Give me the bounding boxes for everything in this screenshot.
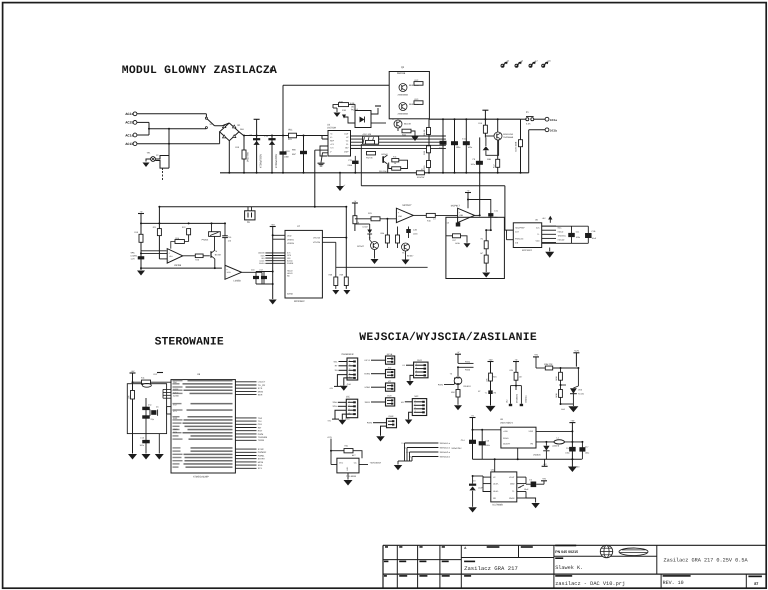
svg-text:U3B: U3B: [459, 214, 464, 217]
svg-text:100n: 100n: [485, 444, 489, 447]
svg-text:SHDN: SHDN: [259, 262, 265, 265]
svg-text:100uF/25V: 100uF/25V: [451, 447, 462, 450]
svg-text:-12: -12: [535, 60, 538, 63]
svg-text:SDA: SDA: [258, 464, 263, 467]
svg-text:zasilacz - DAC V10.prj: zasilacz - DAC V10.prj: [555, 581, 625, 587]
svg-text:FANa: FANa: [465, 360, 471, 363]
svg-text:START: START: [258, 458, 266, 461]
svg-text:2N3055B8: 2N3055B8: [398, 112, 409, 115]
svg-text:1K0B: 1K0B: [455, 242, 460, 245]
svg-text:BD911/3A: BD911/3A: [503, 133, 513, 136]
svg-text:4700uF/25V: 4700uF/25V: [260, 154, 263, 168]
svg-text:LM285: LM285: [131, 255, 138, 258]
svg-text:RSD: RSD: [173, 417, 178, 420]
svg-text:RST: RST: [258, 430, 263, 433]
svg-text:BD139: BD139: [404, 123, 411, 126]
svg-text:AC1a: AC1a: [125, 133, 133, 138]
svg-text:BC547: BC547: [357, 245, 364, 248]
svg-text:P02-3h: P02-3h: [366, 157, 372, 160]
svg-text:C17: C17: [585, 446, 588, 449]
svg-text:VOUT: VOUT: [509, 476, 515, 479]
svg-text:SPA: SPA: [131, 252, 136, 255]
svg-text:TIL_PR: TIL_PR: [258, 384, 266, 387]
svg-text:LM358: LM358: [234, 280, 242, 283]
svg-text:MCP4822: MCP4822: [294, 300, 305, 303]
svg-text:MCP4B22: MCP4B22: [522, 249, 533, 252]
svg-text:REV. 10: REV. 10: [663, 580, 684, 586]
svg-text:L4002-B: L4002-B: [552, 444, 560, 447]
svg-text:+5V: +5V: [570, 419, 574, 422]
svg-text:VREFB: VREFB: [287, 242, 295, 245]
svg-text:1K0B: 1K0B: [555, 393, 558, 398]
svg-text:2: 2: [416, 366, 417, 369]
svg-text:SYS: SYS: [258, 387, 263, 390]
svg-text:ATMEGA32BP: ATMEGA32BP: [193, 475, 209, 478]
svg-text:HOLD: HOLD: [287, 272, 293, 275]
svg-text:TRIG/SCL: TRIG/SCL: [558, 235, 567, 238]
svg-text:R28: R28: [329, 274, 332, 277]
svg-text:VCC: VCC: [339, 461, 344, 464]
svg-text:Zasilacz GRA 217 0.25V 0.5A: Zasilacz GRA 217 0.25V 0.5A: [664, 558, 749, 564]
svg-text:+12V: +12V: [574, 350, 580, 353]
svg-text:CLK: CLK: [258, 423, 263, 426]
svg-text:Slawek K.: Slawek K.: [555, 565, 583, 571]
svg-text:SERIAL1.a: SERIAL1.a: [440, 442, 451, 445]
svg-text:0R1/2W: 0R1/2W: [417, 176, 424, 179]
svg-text:CHG: CHG: [417, 359, 422, 362]
svg-text:R7: R7: [421, 168, 423, 171]
svg-text:PWM1: PWM1: [258, 454, 265, 457]
svg-text:4: 4: [416, 373, 417, 376]
svg-text:C16: C16: [251, 269, 254, 272]
svg-text:PWR: PWR: [389, 415, 394, 418]
svg-text:R9B: R9B: [487, 158, 492, 161]
svg-text:100u: 100u: [471, 163, 475, 166]
svg-text:SERIAL2.b: SERIAL2.b: [440, 455, 451, 458]
svg-text:SER: SER: [258, 394, 263, 397]
svg-text:SMO: SMO: [173, 428, 178, 431]
svg-text:1e: 1e: [519, 486, 521, 489]
svg-text:AC2a: AC2a: [125, 112, 133, 117]
svg-text:ON/OFF: ON/OFF: [503, 442, 511, 445]
svg-text:R2: R2: [494, 392, 496, 395]
svg-text:STEROWANIE: STEROWANIE: [155, 336, 224, 348]
svg-text:/HOLD: /HOLD: [558, 230, 564, 233]
svg-text:TL: TL: [537, 233, 539, 236]
svg-text:T1: T1: [485, 392, 487, 395]
svg-text:R18 1K: R18 1K: [423, 129, 426, 137]
svg-text:SERIAL2.a: SERIAL2.a: [440, 451, 451, 454]
svg-text:/HOLD2: /HOLD2: [558, 239, 565, 242]
svg-text:LM358: LM358: [174, 264, 182, 267]
svg-text:C2B: C2B: [413, 229, 418, 232]
svg-text:3: 3: [415, 406, 416, 409]
svg-text:SERIAL1.b: SERIAL1.b: [440, 446, 451, 449]
svg-text:TL431: TL431: [578, 393, 585, 396]
svg-text:GND: GND: [561, 408, 566, 411]
svg-text:VOUTB: VOUTB: [313, 241, 321, 244]
svg-text:VSW: VSW: [528, 430, 533, 433]
svg-text:V-: V-: [330, 150, 332, 153]
svg-text:PWM: PWM: [367, 422, 372, 425]
svg-text:R24: R24: [493, 376, 496, 379]
svg-text:PWM: PWM: [258, 433, 264, 436]
svg-text:10UFL: 10UFL: [493, 490, 499, 493]
svg-text:2N3055B8: 2N3055B8: [398, 93, 409, 96]
svg-text:1K5B: 1K5B: [555, 376, 558, 381]
svg-text:GND: GND: [347, 383, 352, 386]
svg-text:10uF: 10uF: [592, 237, 597, 240]
svg-text:LDAC: LDAC: [259, 260, 265, 263]
svg-text:AREF: AREF: [173, 388, 179, 391]
svg-text:10uF: 10uF: [478, 486, 483, 489]
svg-text:+24: +24: [548, 60, 551, 63]
svg-text:+CS: +CS: [330, 143, 335, 146]
svg-text:CLR: CLR: [515, 231, 519, 234]
svg-text:C1B: C1B: [592, 230, 597, 233]
svg-text:GND/DQ: GND/DQ: [525, 395, 528, 403]
svg-text:+12V: +12V: [327, 436, 333, 439]
svg-text:KEYB: KEYB: [387, 353, 393, 356]
svg-text:HOLD: HOLD: [287, 270, 293, 273]
svg-text:10uF: 10uF: [524, 488, 529, 491]
svg-text:TERM: TERM: [258, 439, 264, 442]
svg-text:+5: +5: [507, 60, 509, 63]
svg-text:100u: 100u: [565, 452, 569, 455]
svg-text:C16: C16: [566, 447, 569, 450]
svg-text:MGN: MGN: [258, 390, 264, 393]
svg-text:ICL7660B: ICL7660B: [493, 503, 504, 506]
svg-text:A/D: A/D: [388, 366, 392, 369]
svg-text:LM723H: LM723H: [327, 127, 336, 130]
svg-text:DS18B20: DS18B20: [516, 393, 519, 403]
svg-text:US1: US1: [346, 467, 349, 471]
svg-text:GND: GND: [576, 466, 581, 469]
svg-text:BC337: BC337: [215, 254, 222, 257]
svg-text:+5V/100mA: +5V/100mA: [370, 461, 382, 464]
svg-text:MCP617: MCP617: [451, 204, 461, 207]
svg-text:TDI: TDI: [258, 420, 262, 423]
svg-text:AVCC: AVCC: [173, 391, 179, 394]
svg-text:100u: 100u: [585, 451, 589, 454]
svg-text:PR20A: PR20A: [202, 239, 209, 242]
svg-text:AC2b: AC2b: [125, 121, 133, 126]
svg-text:DO5-105B: DO5-105B: [514, 141, 517, 151]
svg-text:MIC: MIC: [415, 395, 419, 398]
svg-text:1: 1: [416, 363, 417, 366]
svg-text:SCA: SCA: [333, 405, 338, 408]
svg-text:/SHDN: /SHDN: [287, 262, 294, 265]
svg-text:6.3A: 6.3A: [526, 123, 531, 126]
svg-text:SCK: SCK: [287, 254, 292, 257]
svg-text:Q1: Q1: [156, 406, 159, 409]
svg-text:3: 3: [416, 369, 417, 372]
svg-text:BC547: BC547: [382, 153, 389, 156]
svg-text:CHARGER: CHARGER: [342, 353, 354, 356]
svg-text:TERM: TERM: [364, 373, 370, 376]
svg-text:SDA: SDA: [333, 401, 338, 404]
svg-text:2: 2: [349, 404, 350, 407]
svg-text:2N3055B8: 2N3055B8: [503, 136, 514, 139]
svg-text:2: 2: [415, 403, 416, 406]
svg-text:HOU/PREF: HOU/PREF: [515, 227, 526, 230]
svg-text:SDI: SDI: [287, 257, 291, 260]
svg-text:4700uF/25V: 4700uF/25V: [275, 154, 278, 168]
svg-text:GND2: GND2: [509, 497, 515, 500]
svg-text:PWM: PWM: [438, 384, 443, 387]
svg-text:MODUL GLOWNY ZASILACZA: MODUL GLOWNY ZASILACZA: [122, 65, 277, 77]
svg-text:SYNC: SYNC: [258, 448, 264, 451]
svg-text:IRL510: IRL510: [464, 385, 472, 388]
svg-text:MCM: MCM: [258, 461, 263, 464]
svg-text:KEY1: KEY1: [365, 359, 371, 362]
svg-text:R5C: R5C: [292, 153, 297, 156]
svg-text:I/O: I/O: [388, 380, 391, 383]
svg-text:4: 4: [349, 372, 350, 375]
svg-text:+5V: +5V: [534, 354, 538, 357]
svg-text:SDI: SDI: [261, 257, 265, 260]
svg-text:VOUTA: VOUTA: [313, 237, 321, 240]
svg-text:R25: R25: [510, 369, 513, 372]
svg-text:R26: R26: [451, 391, 454, 394]
svg-text:PN 045 00215: PN 045 00215: [555, 550, 578, 554]
svg-text:AD2-105: AD2-105: [363, 133, 372, 136]
svg-text:4K7: 4K7: [519, 376, 522, 379]
svg-text:DMOSI: DMOSI: [258, 252, 265, 255]
svg-text:-: -: [459, 219, 460, 222]
svg-text:VDD: VDD: [536, 240, 541, 243]
svg-text:0R27/5W: 0R27/5W: [247, 151, 250, 162]
svg-text:R8C: R8C: [292, 149, 297, 152]
svg-text:1: 1: [349, 400, 350, 403]
svg-text:SN: SN: [335, 369, 338, 372]
svg-text:CMP: CMP: [344, 150, 349, 153]
svg-text:T4: T4: [404, 446, 406, 449]
svg-text:Zasilacz GRA 217: Zasilacz GRA 217: [464, 565, 518, 572]
svg-text:GND: GND: [345, 417, 350, 420]
svg-text:1.0: 1.0: [433, 218, 436, 221]
svg-text:LCD1/7: LCD1/7: [258, 381, 266, 384]
svg-text:+5V: +5V: [489, 358, 493, 361]
svg-text:AGND: AGND: [173, 395, 179, 398]
svg-text:DC1a: DC1a: [550, 118, 558, 122]
svg-text:LM2574(N)-5: LM2574(N)-5: [500, 421, 514, 424]
svg-text:T3: T3: [401, 442, 403, 445]
svg-text:+VIN: +VIN: [503, 430, 508, 433]
svg-text:+5V: +5V: [271, 223, 275, 226]
svg-text:1N5B1B: 1N5B1B: [533, 453, 541, 456]
svg-text:100n: 100n: [413, 233, 417, 236]
svg-text:R15 3h6: R15 3h6: [379, 170, 387, 173]
svg-text:+5V: +5V: [542, 217, 546, 220]
svg-text:VDD: VDD: [287, 234, 292, 237]
svg-text:1: 1: [349, 359, 350, 362]
svg-text:10UFL: 10UFL: [493, 482, 499, 485]
svg-text:+5V: +5V: [542, 478, 546, 481]
svg-text:AGND: AGND: [287, 293, 294, 296]
svg-text:3: 3: [349, 408, 350, 411]
svg-text:+5V: +5V: [131, 370, 135, 373]
svg-text:PR/SLON: PR/SLON: [515, 238, 524, 241]
svg-text:WEJSCIA/WYJSCIA/ZASILANIE: WEJSCIA/WYJSCIA/ZASILANIE: [359, 331, 537, 344]
svg-text:AC1b: AC1b: [125, 142, 133, 147]
svg-text:I2C: I2C: [346, 396, 350, 399]
svg-text:PWM0/2: PWM0/2: [258, 451, 267, 454]
svg-text:87: 87: [754, 582, 758, 586]
svg-text:-: -: [398, 219, 399, 222]
svg-text:3: 3: [349, 368, 350, 371]
svg-text:VREFA: VREFA: [287, 238, 294, 241]
svg-text:1: 1: [415, 399, 416, 402]
svg-text:U3A: U3A: [398, 215, 403, 218]
svg-text:DC1b: DC1b: [550, 129, 558, 133]
svg-text:OUT: OUT: [387, 395, 392, 398]
svg-text:GND: GND: [510, 482, 515, 485]
svg-text:BC547: BC547: [407, 255, 414, 258]
svg-text:R3B 22R: R3B 22R: [544, 363, 553, 366]
svg-text:R1: R1: [406, 451, 408, 454]
svg-text:5B01B8: 5B01B8: [397, 72, 406, 75]
svg-text:A: A: [270, 67, 274, 74]
svg-text:SGND: SGND: [503, 437, 509, 440]
svg-text:TRANSM: TRANSM: [258, 436, 267, 439]
svg-text:100n: 100n: [576, 236, 580, 239]
svg-text:U12: U12: [506, 400, 509, 403]
svg-text:SER1: SER1: [365, 401, 371, 404]
svg-text:USB1: USB1: [365, 386, 371, 389]
svg-text:R29: R29: [340, 274, 343, 277]
svg-text:12: 12: [521, 60, 523, 63]
svg-text:100n: 100n: [140, 444, 144, 447]
svg-text:PCK: PCK: [173, 431, 178, 434]
svg-text:1.2V: 1.2V: [131, 258, 136, 261]
svg-text:100n: 100n: [284, 156, 290, 159]
svg-text:/LDAC: /LDAC: [287, 259, 293, 262]
svg-text:MCP617: MCP617: [403, 204, 413, 207]
svg-text:4: 4: [415, 410, 416, 413]
svg-text:FANb: FANb: [465, 369, 471, 372]
svg-text:R4: R4: [481, 238, 483, 241]
svg-text:LED2: LED2: [363, 226, 369, 229]
svg-text:2: 2: [349, 363, 350, 366]
